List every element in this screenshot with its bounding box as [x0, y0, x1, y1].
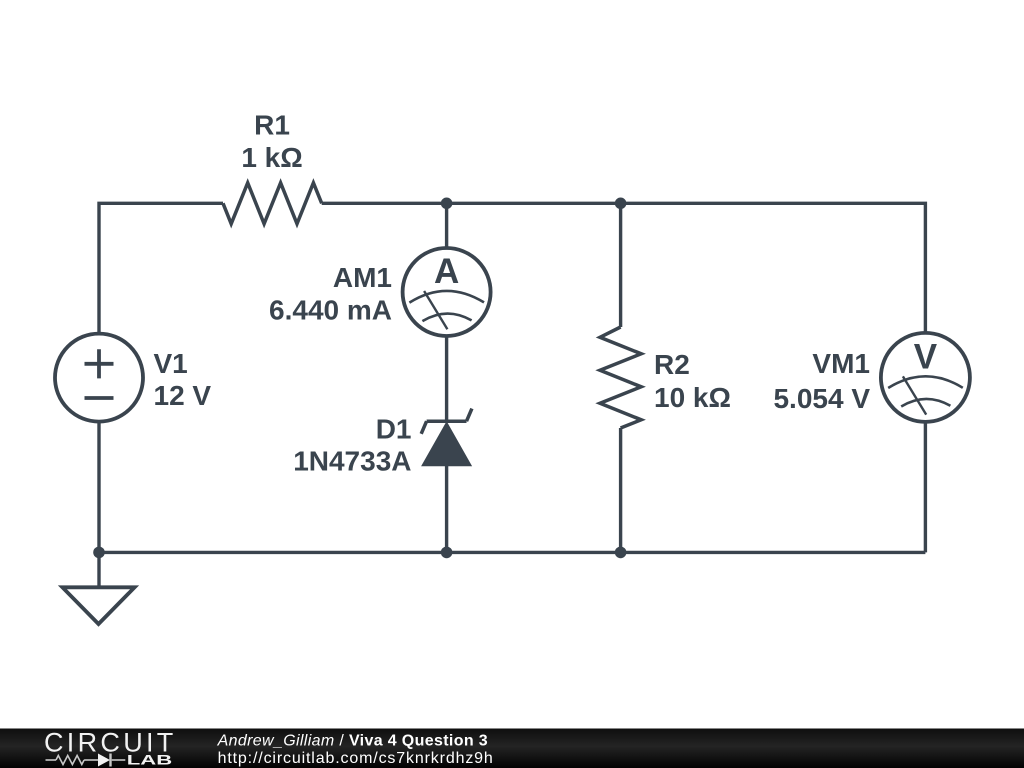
svg-text:Andrew_Gilliam / Viva 4 Questi: Andrew_Gilliam / Viva 4 Question 3 [217, 732, 488, 749]
svg-text:VM1: VM1 [812, 348, 870, 379]
svg-text:R1: R1 [254, 110, 290, 141]
svg-text:5.054 V: 5.054 V [773, 383, 870, 414]
wire [97, 422, 100, 553]
svg-text:A: A [434, 252, 459, 291]
node C [93, 547, 105, 559]
svg-text:V: V [914, 337, 938, 376]
voltage source V1 [55, 334, 143, 422]
footer bar [0, 729, 1024, 768]
svg-text:http://circuitlab.com/cs7knrkr: http://circuitlab.com/cs7knrkrdhz9h [218, 750, 494, 767]
node D [441, 547, 453, 559]
svg-text:6.440 mA: 6.440 mA [269, 295, 392, 326]
wire [445, 465, 448, 552]
CircuitLab logo diode triangle [98, 754, 110, 767]
wire [924, 422, 927, 553]
zener diode D1 [421, 409, 472, 434]
wire [99, 203, 223, 333]
node B [615, 198, 627, 210]
svg-text:AM1: AM1 [333, 262, 392, 293]
wire [445, 203, 448, 248]
svg-text:10 kΩ: 10 kΩ [654, 382, 731, 413]
svg-text:D1: D1 [376, 414, 412, 445]
ground [62, 587, 134, 624]
node E [615, 547, 627, 559]
wire [445, 336, 448, 421]
wire [621, 203, 926, 333]
wire [322, 202, 447, 205]
wire [99, 551, 447, 554]
wire [619, 428, 622, 552]
resistor R2 [600, 327, 641, 428]
CircuitLab logo resistor-diode symbol [46, 754, 126, 767]
voltmeter VM1 [881, 333, 970, 422]
wire [447, 202, 621, 205]
wire [97, 552, 100, 587]
svg-text:V1: V1 [154, 348, 188, 379]
svg-text:R2: R2 [654, 349, 690, 380]
wire [621, 551, 926, 554]
svg-text:1N4733A: 1N4733A [293, 446, 411, 477]
wire [447, 551, 621, 554]
svg-text:1 kΩ: 1 kΩ [241, 142, 302, 173]
wire [619, 203, 622, 327]
ammeter AM1 [403, 248, 491, 336]
svg-text:12 V: 12 V [154, 380, 212, 411]
svg-text:LAB: LAB [127, 752, 172, 768]
node A [441, 198, 453, 210]
resistor R1 [223, 183, 322, 224]
